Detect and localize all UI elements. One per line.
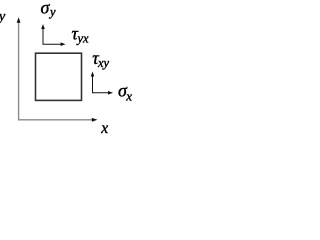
- x-axis line: [18, 119, 96, 121]
- y-axis arrowhead: [17, 17, 21, 23]
- svg-text:x: x: [125, 88, 132, 103]
- svg-text:y: y: [0, 10, 6, 25]
- svg-text:yx: yx: [76, 31, 90, 45]
- sigma_x arrow (right): [92, 92, 110, 94]
- tau_yx arrow (right): [43, 43, 63, 45]
- x-axis arrowhead: [92, 118, 98, 122]
- svg-text:xy: xy: [97, 56, 110, 70]
- stress element square: [36, 53, 82, 100]
- svg-text:x: x: [100, 120, 108, 137]
- svg-text:y: y: [48, 5, 56, 19]
- sigma_y arrow (up): [42, 27, 44, 45]
- tau_xy arrow (up): [92, 74, 94, 93]
- svg-text:σ: σ: [41, 0, 51, 18]
- y-axis line: [18, 19, 20, 120]
